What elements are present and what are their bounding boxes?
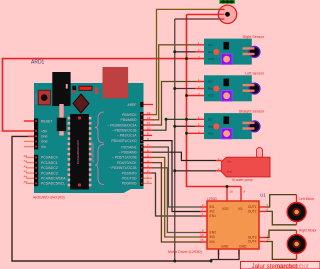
svg-text:VCC: VCC [208, 132, 215, 136]
svg-text:13: 13 [147, 111, 151, 115]
wire right sensor Gnd [175, 51, 195, 53]
analog pin numbers [24, 154, 28, 184]
connected pin red stubs [144, 115, 153, 173]
wire VSS pin16 stub [226, 187, 228, 203]
USB connector [103, 67, 129, 98]
svg-text:~ PB2/SS/OC1B: ~ PB2/SS/OC1B [112, 129, 138, 133]
svg-text:EN2: EN2 [210, 231, 217, 235]
svg-text:RESET: RESET [41, 119, 52, 123]
left motor [287, 197, 315, 222]
svg-text:12: 12 [147, 116, 151, 120]
diode with salmon lead [57, 104, 66, 136]
right motor [287, 229, 317, 254]
digital pin numbers [147, 111, 151, 184]
svg-text:ARD1: ARD1 [31, 60, 45, 66]
svg-text:PC5/ADC5/SCL: PC5/ADC5/SCL [41, 182, 65, 186]
svg-text:+5v: +5v [227, 159, 232, 163]
IR sensor module: Straight Sensor [198, 109, 265, 139]
wire pump motor bottom lead [175, 18, 219, 20]
svg-text:U1: U1 [260, 193, 266, 198]
wire +5V to straight sensor VCC [187, 132, 205, 134]
junction dots [165, 50, 229, 262]
svg-text:15: 15 [200, 238, 204, 242]
svg-text:A0: A0 [24, 154, 28, 158]
left pin header power block [34, 118, 38, 149]
svg-text:W water pump: W water pump [232, 178, 253, 182]
svg-text:IN2: IN2 [210, 210, 215, 214]
svg-text:PB5/SCK: PB5/SCK [122, 113, 137, 117]
svg-text:Gnd: Gnd [208, 50, 214, 54]
maroon diamond (inductor) [73, 94, 89, 113]
svg-text:~ PB1/OC1A: ~ PB1/OC1A [117, 134, 137, 138]
svg-text:PC0/ADC0: PC0/ADC0 [41, 156, 58, 160]
arduino right pin labels [107, 103, 137, 186]
wire water pump Gnd [175, 170, 216, 172]
svg-text:BLOGEMBARCADO: BLOGEMBARCADO [76, 140, 80, 164]
svg-text:OUT2: OUT2 [248, 209, 257, 213]
svg-text:RST BTN: RST BTN [34, 93, 38, 104]
wire +5V to pump motor [187, 14, 220, 16]
svg-text:PD2/INT0: PD2/INT0 [122, 171, 137, 175]
right pin header PB block [140, 112, 144, 143]
svg-text:EN1: EN1 [210, 214, 217, 218]
svg-text:Gnd: Gnd [227, 169, 232, 173]
svg-text:+5V: +5V [41, 129, 48, 133]
svg-text:Motor Driver (L293D): Motor Driver (L293D) [168, 250, 202, 254]
arduino left pin labels [41, 119, 66, 185]
svg-text:Left Sensor: Left Sensor [245, 72, 265, 76]
wire right sensor DO to pin12 [152, 45, 196, 120]
svg-text:~ PD3/INT1/OC2B: ~ PD3/INT1/OC2B [109, 166, 138, 170]
voltage regulator [52, 72, 70, 106]
wire left sensor Gnd [175, 88, 195, 90]
crystal with red dot [72, 86, 76, 93]
svg-text:ATMEGA328P: ATMEGA328P [91, 142, 95, 163]
svg-text:10: 10 [200, 233, 204, 237]
svg-text:Gnd: Gnd [41, 140, 48, 144]
svg-text:14: 14 [267, 238, 271, 242]
battery at top edge [220, 0, 235, 3]
wire straight sensor Gnd [175, 125, 195, 127]
wire OUT4 to right motor bottom [266, 242, 297, 260]
wire OUT2 to left motor bottom [266, 211, 297, 224]
wire OUT1 to left motor top [266, 195, 297, 207]
L293D GND pin red stubs [218, 249, 220, 255]
small red component right of LED [95, 88, 98, 95]
microcontroller ATMEGA328P U-IC [68, 114, 95, 190]
svg-text:~ PD5/T1/OC0B: ~ PD5/T1/OC0B [112, 156, 137, 160]
svg-text:Right Sensor: Right Sensor [243, 35, 265, 39]
svg-text:PB4/MISO: PB4/MISO [120, 118, 136, 122]
svg-text:11: 11 [147, 121, 150, 125]
svg-text:~ PB3/MOSI/OC2A: ~ PB3/MOSI/OC2A [107, 123, 137, 127]
svg-text:DO: DO [208, 43, 213, 47]
svg-text:A2: A2 [24, 164, 28, 168]
wire reset pin stub [24, 120, 34, 122]
svg-text:Vin: Vin [41, 145, 46, 149]
svg-text:OUT4: OUT4 [248, 240, 257, 244]
power LED bar [79, 86, 92, 90]
svg-text:PB0/ICP1/CLKO: PB0/ICP1/CLKO [111, 139, 136, 143]
wire PD4 to L293D IN4 [152, 163, 202, 242]
svg-text:VCC: VCC [208, 94, 215, 98]
svg-text:PD0/RXD: PD0/RXD [122, 182, 137, 186]
svg-text:Gnd: Gnd [208, 87, 214, 91]
water pump module [218, 148, 270, 182]
svg-text:IN4: IN4 [210, 240, 215, 244]
svg-text:Gnd: Gnd [41, 135, 48, 139]
pin group braces [95, 112, 104, 143]
IR sensor module: Left Sensor [198, 72, 265, 102]
svg-text:A4: A4 [24, 175, 28, 179]
wire pin13 to pump motor top (olive) [152, 9, 219, 114]
wire PD6 to water pump + [152, 152, 216, 160]
svg-text:PC4/ADC4/SDA: PC4/ADC4/SDA [41, 177, 66, 181]
wire VS pin8 stub [240, 187, 242, 203]
left pin header analog block [34, 155, 38, 186]
motor driver U1 L293D [168, 190, 270, 255]
svg-text:Left Motor: Left Motor [299, 197, 315, 201]
arduino UNO board ARD1 [34, 83, 144, 193]
L293D right pin stubs [259, 206, 266, 208]
svg-text:PD4/T0/XCK: PD4/T0/XCK [117, 161, 137, 165]
svg-text:IN3: IN3 [210, 235, 215, 239]
svg-text:16: 16 [230, 190, 234, 194]
wire +5V to left sensor VCC [187, 95, 205, 97]
svg-text:sdemarobot: sdemarobot [276, 263, 309, 269]
wire PD5 to L293D IN3 [152, 157, 202, 237]
L293D left pin stubs [200, 207, 207, 242]
svg-text:L293D: L293D [207, 197, 218, 201]
IR sensor module: Right Sensor [198, 35, 265, 65]
svg-text:~ PD6/AIN0: ~ PD6/AIN0 [119, 151, 137, 155]
wire PD7 to L293D IN1 [152, 147, 202, 207]
svg-text:ARDUINO UNO (R3): ARDUINO UNO (R3) [33, 196, 65, 200]
svg-text:DO: DO [208, 118, 213, 122]
svg-text:VSS: VSS [222, 207, 229, 211]
wire +5V from arduino +5V pin up and over to sensor rail [3, 59, 205, 131]
wire OUT3 to right motor top [266, 230, 297, 237]
reset button [34, 90, 51, 105]
svg-text:A5: A5 [24, 180, 28, 184]
svg-text:PD1/TXD: PD1/TXD [122, 177, 137, 181]
svg-text:AREF: AREF [127, 103, 136, 107]
svg-text:PC1/ADC1: PC1/ADC1 [41, 161, 58, 165]
wire ground loop to L293D GND pins [211, 250, 239, 262]
svg-text:VCC: VCC [208, 57, 215, 61]
svg-text:IN1: IN1 [210, 205, 215, 209]
svg-text:GND: GND [221, 245, 229, 249]
wire +5V vertical rail feeding sensors and L293D [187, 15, 242, 187]
svg-text:Straight Sensor: Straight Sensor [239, 109, 265, 113]
svg-text:PC2/ADC2: PC2/ADC2 [41, 166, 58, 170]
pump motor (circle with dot) [218, 5, 236, 23]
wire PD3 to L293D EN2 [152, 168, 202, 233]
wire PD2 to L293D EN1 [152, 173, 202, 216]
svg-text:OUT1: OUT1 [248, 205, 257, 209]
unconnected pin stubs [24, 105, 153, 184]
svg-text:A1: A1 [24, 159, 28, 163]
wire ground vertical distribution rail [174, 19, 176, 261]
svg-text:PD7/AIN1: PD7/AIN1 [121, 145, 136, 149]
right pin header PD block [140, 144, 144, 186]
svg-text:Gnd: Gnd [208, 125, 214, 129]
right pin header AREF block [140, 102, 144, 107]
title box Jalur [241, 262, 320, 269]
wire pin8 to L293D IN2 [144, 141, 202, 212]
wire left sensor DO to pin11 [152, 82, 196, 126]
svg-text:DO: DO [208, 80, 213, 84]
wire ground from arduino Gnd pin down and along bottom [12, 136, 211, 261]
tiny silk mark [66, 84, 68, 89]
svg-text:10: 10 [147, 126, 151, 130]
svg-text:GND: GND [239, 245, 247, 249]
svg-text:PC3/ADC3: PC3/ADC3 [41, 171, 58, 175]
svg-text:Right Motor: Right Motor [299, 229, 317, 233]
svg-text:A3: A3 [24, 170, 28, 174]
wire straight sensor DO to pin10 [152, 119, 196, 130]
